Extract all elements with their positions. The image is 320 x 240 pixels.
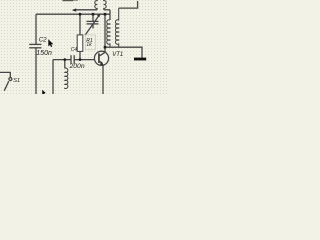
junction dot rail/R1 [79,13,82,16]
junction dot base wire/L1 [63,58,66,61]
capacitor C2 plates [29,43,41,45]
switch S1 lever [4,81,9,91]
wire: emitter down to bottom edge [102,65,104,94]
capacitor C2 bottom lead [35,48,37,94]
wire: upper antenna line left segment [76,9,97,11]
cursor fragment at bottom edge [42,90,45,94]
transformer T1 (cut off at top edge) right winding [104,0,106,10]
resistor R1 body [77,35,83,52]
svg-text:VT1: VT1 [112,52,123,58]
arrow pointing left on antenna line [72,8,76,11]
transistor VT1 emitter diagonal [100,61,103,65]
capacitor C4 plates [70,55,72,64]
switch S1 wire from left edge [0,72,10,77]
wire: base wire right of C4 [74,59,98,61]
svg-text:C4: C4 [71,47,78,53]
transistor VT1 circle [94,51,108,65]
svg-text:150n: 150n [36,50,52,57]
svg-text:S1: S1 [13,78,20,84]
variable capacitor C3 top lead [92,14,94,21]
wire: base wire left of C4 [53,59,71,61]
ground bar [134,58,146,61]
inductor L1 humps (bulge right) [65,68,68,89]
resistor R1 top lead [79,14,81,35]
label frame around R1 values [85,35,95,50]
inductor L2 left winding of transformer (humps left) [107,20,110,47]
variable capacitor C3 bottom stub [92,24,94,29]
mouse cursor near C2 [48,39,53,47]
wire: upper antenna line right segment [104,9,110,11]
switch S1 contact circle [9,78,12,81]
wire: main top rail [36,13,110,15]
variable capacitor C3 arrow [85,16,99,36]
transistor VT1 collector diagonal [100,52,105,56]
svg-text:C2: C2 [39,37,47,44]
wire: bottom line to ground [105,47,142,57]
wire: base wire corner down to bottom edge [52,60,54,94]
junction dot rail/collector feed [104,13,107,16]
svg-text:200n: 200n [69,63,85,70]
canvas background [0,0,168,94]
dark cut-off text streak at top edge [63,0,74,1]
wire: right winding top lead step to top edge [119,1,138,8]
inductor L3 right winding of transformer (humps left) [115,8,118,47]
junction dot rail/C3 [92,13,95,16]
transformer T1 (cut off at top edge) left winding [95,0,97,10]
svg-text:1k: 1k [86,42,92,48]
junction dot bottom line/collector [104,46,107,49]
transistor VT1 emitter arrowhead [100,61,104,66]
capacitor C2 top lead [35,14,37,44]
inductor L1 top lead [64,60,66,69]
wire: collector feed from rail down [104,14,106,52]
variable capacitor C3 plates [87,20,99,22]
resistor R1 bottom lead [79,51,81,59]
wire: rail end to L2 top / antenna line [109,10,111,20]
junction dot base wire/R1 [79,58,82,61]
transistor VT1 base bar [98,53,100,63]
